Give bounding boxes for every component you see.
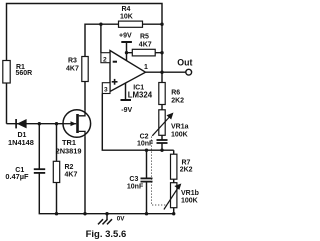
svg-text:100K: 100K bbox=[171, 131, 188, 138]
svg-text:2: 2 bbox=[103, 57, 107, 64]
svg-text:LM324: LM324 bbox=[128, 91, 153, 100]
svg-text:4K7: 4K7 bbox=[65, 171, 78, 178]
svg-text:2K2: 2K2 bbox=[180, 166, 193, 173]
svg-text:+9V: +9V bbox=[119, 32, 132, 39]
svg-text:1N4148: 1N4148 bbox=[8, 138, 34, 147]
svg-text:Fig. 3.5.6: Fig. 3.5.6 bbox=[86, 229, 127, 240]
svg-text:0V: 0V bbox=[117, 216, 126, 223]
svg-text:R5: R5 bbox=[140, 34, 149, 41]
svg-text:R4: R4 bbox=[122, 6, 131, 13]
svg-text:Out: Out bbox=[177, 58, 192, 68]
svg-text:10nF: 10nF bbox=[127, 184, 144, 191]
svg-text:R3: R3 bbox=[68, 57, 77, 64]
svg-text:2K2: 2K2 bbox=[171, 97, 184, 104]
svg-text:0.47µF: 0.47µF bbox=[5, 172, 29, 181]
svg-text:560R: 560R bbox=[16, 70, 33, 77]
svg-text:C3: C3 bbox=[129, 176, 138, 183]
svg-text:R6: R6 bbox=[171, 90, 180, 97]
svg-text:2N3819: 2N3819 bbox=[56, 147, 82, 156]
svg-text:10nF: 10nF bbox=[137, 140, 154, 147]
svg-text:1: 1 bbox=[144, 64, 148, 71]
svg-text:100K: 100K bbox=[181, 198, 198, 205]
svg-text:4K7: 4K7 bbox=[66, 65, 79, 72]
svg-text:3: 3 bbox=[104, 87, 108, 94]
svg-text:VR1a: VR1a bbox=[171, 124, 189, 131]
svg-text:4K7: 4K7 bbox=[139, 42, 152, 49]
svg-text:10K: 10K bbox=[120, 14, 133, 21]
svg-text:-9V: -9V bbox=[121, 107, 132, 114]
svg-text:VR1b: VR1b bbox=[181, 190, 199, 197]
svg-text:R2: R2 bbox=[65, 164, 74, 171]
